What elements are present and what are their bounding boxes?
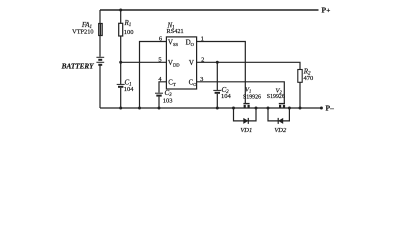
node junction C3 bottom rail: [158, 107, 161, 110]
svg-text:VD2: VD2: [274, 127, 287, 134]
node junction R2 bottom rail: [299, 107, 302, 110]
transistor Q1 V1 mosfet symbol: [243, 104, 249, 108]
battery BATTERY: [96, 57, 104, 65]
svg-text:P+: P+: [322, 6, 331, 15]
svg-text:100: 100: [124, 29, 134, 36]
wire C2 bottom lead: [216, 94, 218, 108]
svg-text:1: 1: [201, 36, 204, 43]
wire bottom negative rail: [100, 107, 321, 109]
resistor R1: [119, 23, 123, 36]
wire fuse top lead: [99, 10, 101, 24]
node junction VD1 left: [232, 107, 235, 110]
svg-text:V: V: [189, 59, 194, 67]
wire pin1 DO to V1 gate: [197, 42, 246, 104]
svg-text:VTP210: VTP210: [72, 28, 93, 35]
node junction C1 bottom rail: [119, 107, 122, 110]
node junction pin2 wire to C2: [216, 61, 219, 64]
svg-text:S19926: S19926: [243, 95, 261, 101]
wire C3 bottom lead: [158, 97, 160, 108]
wire pin4 CT to C3: [159, 82, 166, 93]
op-amp U1 IC N1 box: [166, 37, 196, 89]
diode VD1: [243, 118, 248, 124]
svg-text:S19926: S19926: [267, 94, 285, 100]
node junction VD2 right: [288, 107, 291, 110]
node junction R1 / VDD wire: [119, 61, 122, 64]
node junction C2 bottom rail: [216, 107, 219, 110]
svg-text:DO: DO: [186, 39, 195, 47]
svg-text:3: 3: [200, 76, 203, 83]
svg-text:VDD: VDD: [168, 59, 180, 67]
node junction VD1 right: [255, 107, 258, 110]
svg-text:103: 103: [163, 97, 173, 104]
wire battery negative to bottom rail: [99, 66, 101, 109]
svg-text:V1: V1: [245, 87, 251, 94]
svg-text:104: 104: [124, 86, 135, 93]
capacitor C2: [213, 90, 221, 92]
transistor Q2 V2 mosfet symbol: [279, 104, 285, 108]
capacitor C1: [117, 84, 125, 86]
svg-text:R1: R1: [124, 19, 132, 28]
wire pin6 VSS to bottom rail: [140, 42, 167, 109]
wire R1 bottom to C1: [120, 36, 122, 84]
wire C1 bottom lead: [120, 88, 122, 108]
svg-text:RS421: RS421: [167, 28, 184, 35]
diode VD2: [278, 118, 283, 124]
resistor R2: [298, 70, 302, 83]
wire pin2 V to R2: [197, 62, 300, 69]
wire pin3 CO to V2 gate: [197, 82, 285, 104]
fuse FA1: [99, 24, 103, 36]
svg-text:5: 5: [158, 57, 161, 64]
wire VD2 loop: [268, 108, 289, 121]
wire fuse to battery: [99, 36, 101, 57]
wire R1 top lead: [120, 10, 122, 23]
svg-text:VSS: VSS: [168, 39, 179, 47]
node end dot at P- terminal: [320, 107, 323, 110]
svg-text:BATTERY: BATTERY: [61, 63, 94, 71]
svg-text:P–: P–: [326, 104, 335, 113]
svg-text:VD1: VD1: [240, 127, 252, 134]
node junction VSS bottom rail: [138, 107, 141, 110]
svg-text:CO: CO: [189, 79, 198, 87]
wire VD1 loop: [234, 108, 257, 121]
svg-text:CT: CT: [168, 79, 176, 87]
wire C2 top lead: [216, 62, 218, 90]
capacitor C3: [155, 93, 163, 95]
svg-text:104: 104: [221, 93, 232, 100]
svg-text:2: 2: [201, 57, 204, 64]
wire R2 bottom lead: [299, 82, 301, 108]
node junction top rail to R1: [119, 9, 122, 12]
node junction VD2 left: [267, 107, 270, 110]
wire pin5 VDD: [121, 61, 167, 63]
wire top positive rail: [100, 9, 319, 11]
svg-text:470: 470: [304, 75, 314, 82]
